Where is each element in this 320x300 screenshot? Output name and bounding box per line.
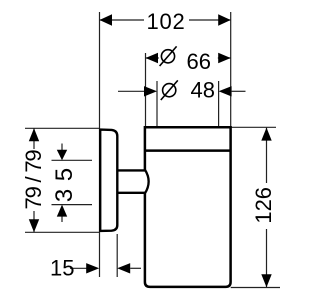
dimension Ø48 arrows [118,86,246,96]
extension line: wall / plate back (x=99.5) [99,12,101,277]
svg-text:79 / 79: 79 / 79 [21,150,46,210]
svg-text:48: 48 [191,78,215,103]
dimension Ø48 label [161,78,215,103]
stem (arm between plate and cup) [119,170,149,194]
extension line: plate top (y=128.3) [25,127,100,129]
dimension 126 label (rotated) [251,183,276,229]
svg-text:66: 66 [187,49,211,74]
svg-text:102: 102 [146,9,185,34]
extension line: cup top right (y=127.3) [231,126,276,128]
svg-text:35: 35 [51,160,78,202]
extension line: rim inner right (x=218.6) [218,81,220,126]
dimension 102 line [100,14,231,26]
extension line: cup bottom right (y=287.5) [231,287,280,289]
extension line: plate bottom (y=232.3) [25,231,100,233]
extension line: hole bottom (y=204.6) [52,204,93,206]
dimension 15 line [70,263,141,273]
cup rim band bottom edge [145,149,231,152]
extension line: rim inner left (x=157) [156,81,158,126]
dimension 35 arrows [57,144,67,223]
dimension 126 line [261,128,271,288]
dimension 79/79 label (rotated) [21,149,46,211]
dimension 15 label [50,255,74,280]
dimension 79/79 line [29,128,39,232]
svg-text:15: 15 [50,255,74,280]
dimension 35 label (rotated) [51,160,78,202]
extension line: rim outer left (x=145.5) [145,53,147,126]
svg-text:126: 126 [251,187,276,224]
dimension Ø66 label [159,46,218,73]
extension line: cup front right (x=230.7) [230,12,232,127]
dimension Ø66 line [146,53,231,63]
extension line: hole top (y=160.3) [52,159,93,161]
cup (tumbler) outline [145,127,231,287]
dimension 102 label [144,9,189,34]
extension line: plate front for 15 dim (x=117.2) [116,234,118,277]
wall plate outline [100,130,117,231]
